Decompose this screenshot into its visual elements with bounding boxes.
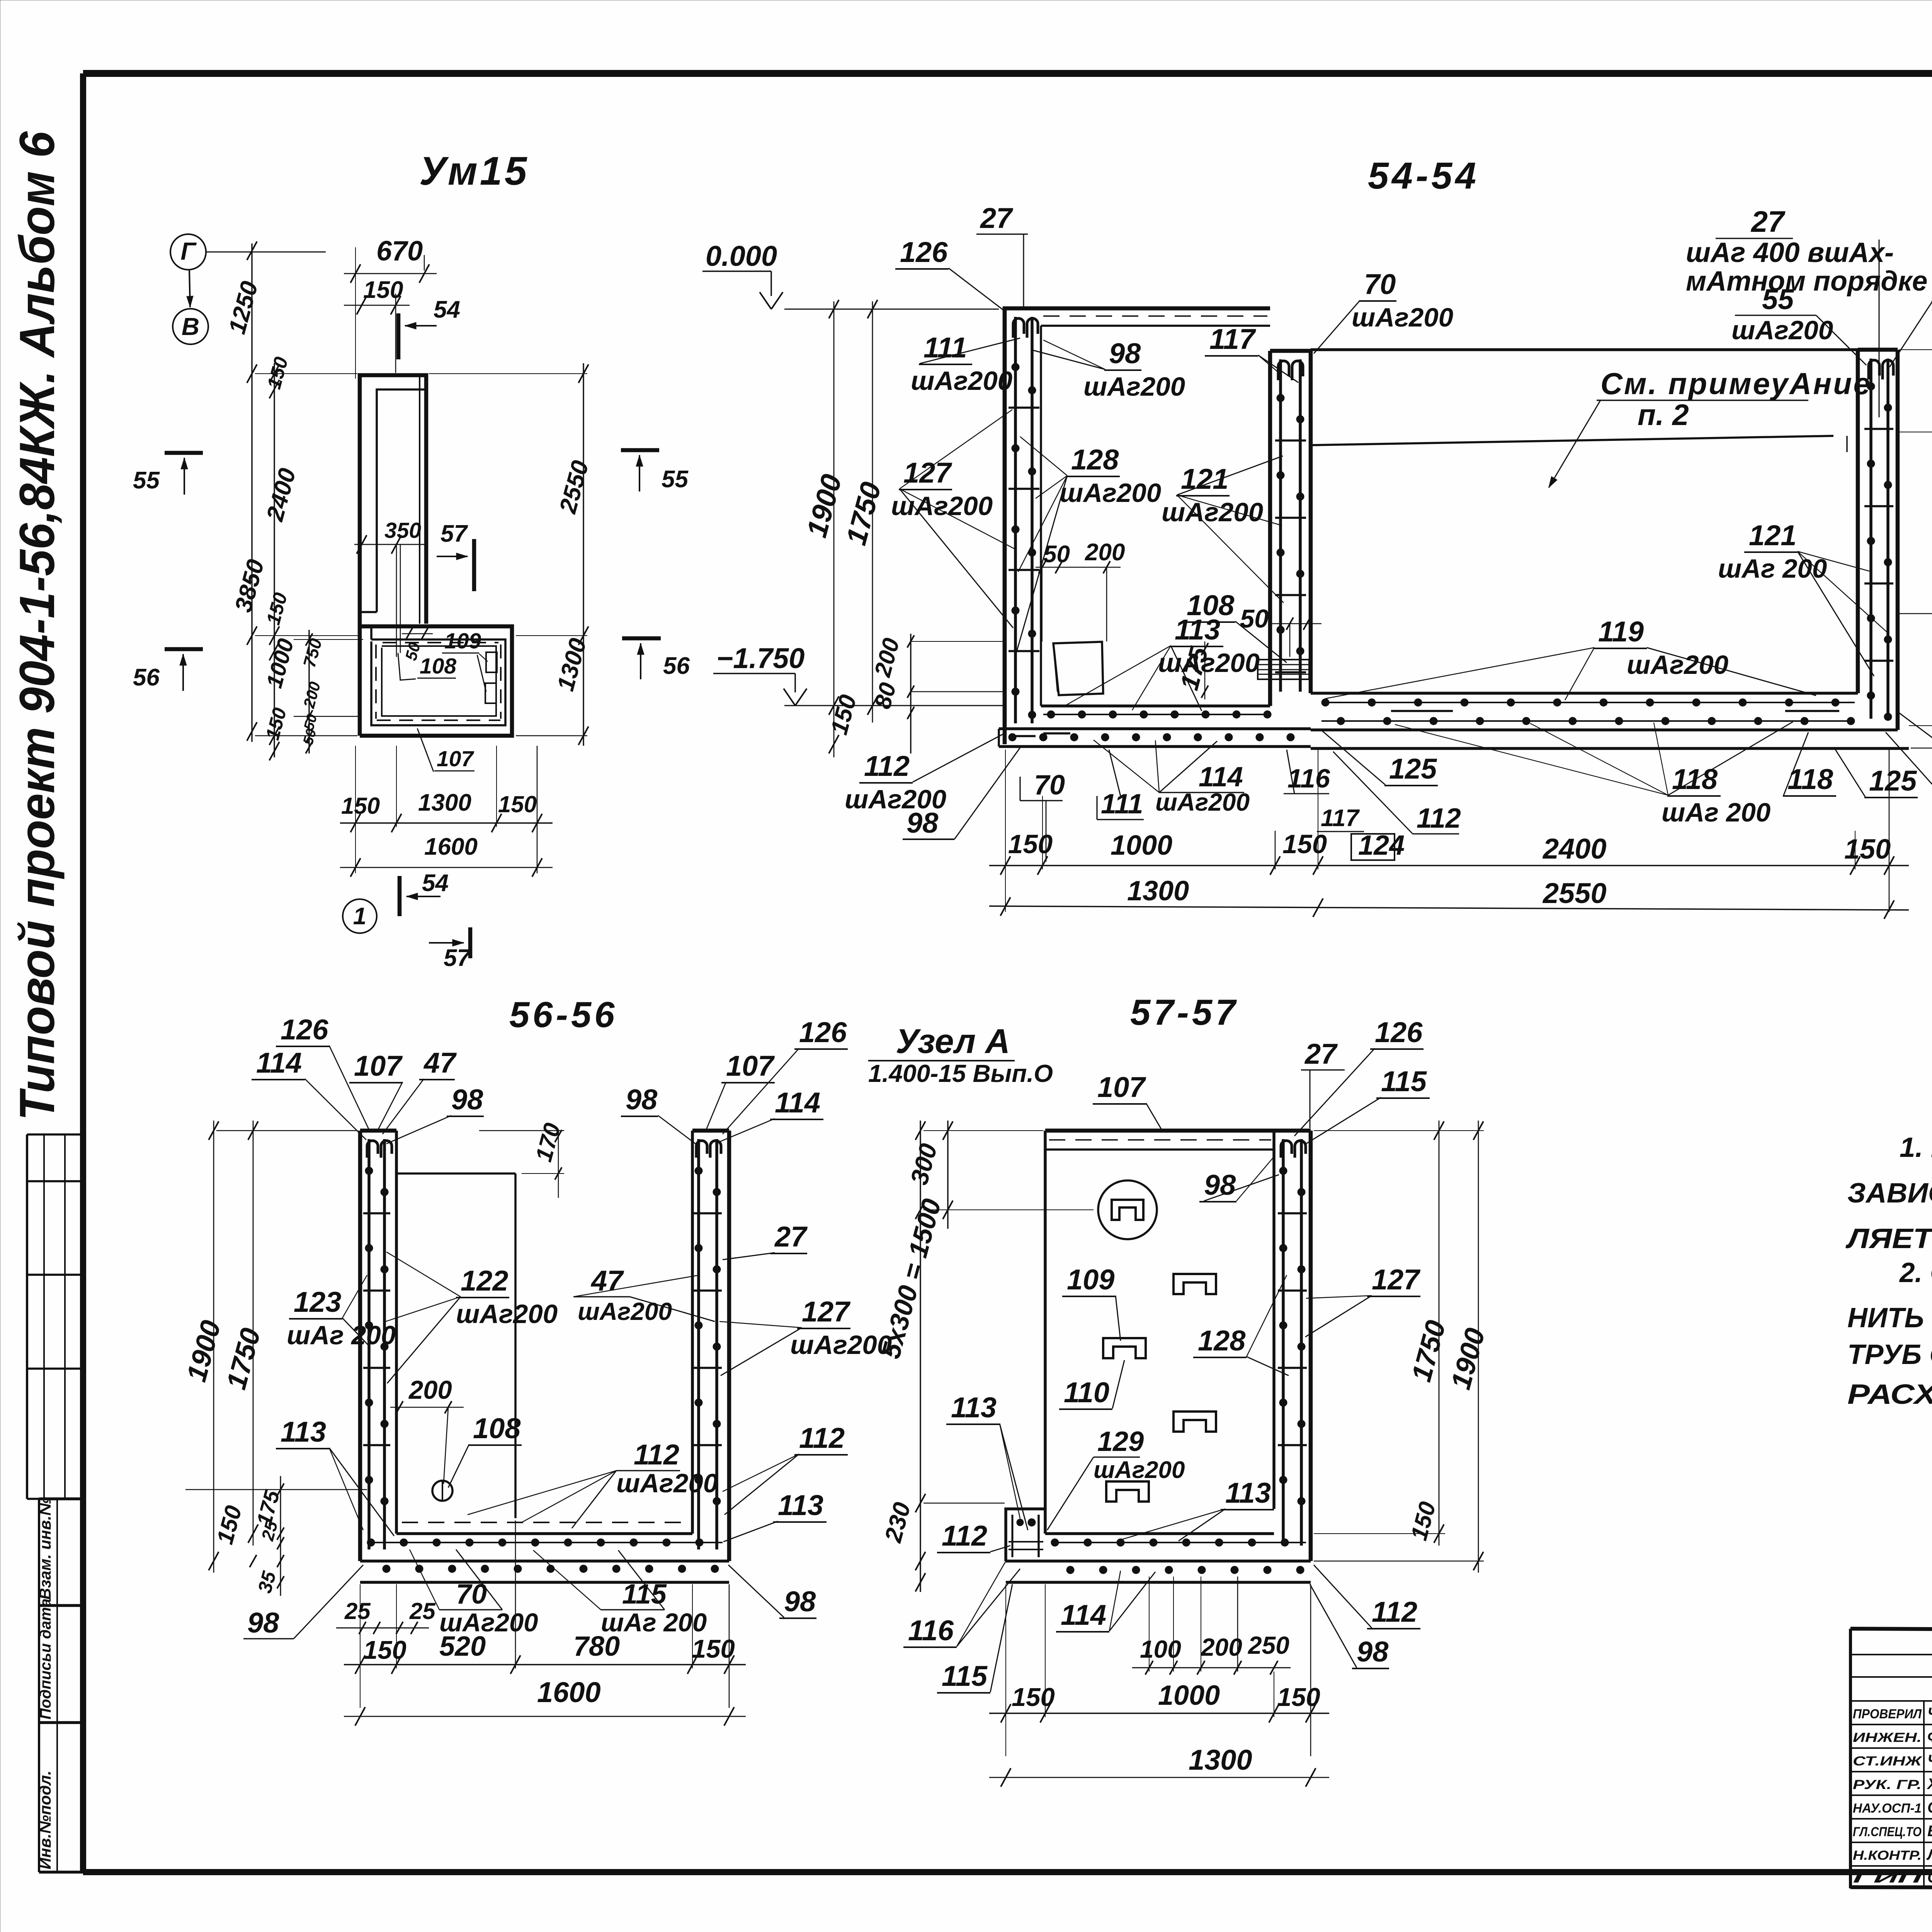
svg-text:25: 25 — [344, 1598, 371, 1624]
57-57 stirrup brackets scattered — [1173, 1274, 1216, 1294]
56-56 right wall outline — [692, 1131, 729, 1561]
svg-text:СААКЬЯНЦ: СААКЬЯНЦ — [1927, 1799, 1932, 1816]
svg-text:ЧЕРНЯВСКАЯ: ЧЕРНЯВСКАЯ — [1927, 1705, 1932, 1722]
svg-text:350: 350 — [384, 518, 421, 543]
57-57 right wall band — [1274, 1131, 1311, 1561]
svg-text:123: 123 — [294, 1286, 341, 1318]
svg-text:107: 107 — [726, 1050, 775, 1082]
svg-text:113: 113 — [778, 1489, 823, 1521]
54-54 right compartment long walls — [1311, 350, 1858, 460]
svg-text:57: 57 — [440, 520, 468, 547]
svg-text:1.400-15 Вып.О: 1.400-15 Вып.О — [868, 1060, 1053, 1087]
svg-text:55: 55 — [133, 467, 160, 494]
svg-text:98: 98 — [626, 1083, 658, 1116]
54-54 left wall concrete outline — [1005, 308, 1041, 744]
svg-text:200: 200 — [1201, 1633, 1242, 1661]
svg-text:56: 56 — [663, 653, 690, 679]
svg-text:шАг 200: шАг 200 — [1662, 798, 1770, 827]
svg-text:СТ.ИНЖ: СТ.ИНЖ — [1853, 1754, 1923, 1769]
svg-text:Узел А: Узел А — [896, 1022, 1010, 1060]
svg-text:1300: 1300 — [1189, 1744, 1252, 1776]
svg-text:112: 112 — [864, 750, 910, 782]
svg-text:54-54: 54-54 — [1368, 155, 1479, 197]
svg-text:114: 114 — [1061, 1599, 1106, 1631]
plan Ум15 pipe sleeve marks 109 — [486, 652, 497, 672]
54-54 middle wall rebar with dots — [1275, 359, 1306, 692]
svg-text:121: 121 — [1749, 519, 1796, 551]
svg-text:113: 113 — [1175, 614, 1220, 646]
svg-text:ГИП: ГИП — [1853, 1871, 1923, 1886]
svg-text:Инв.№подл.: Инв.№подл. — [36, 1770, 54, 1869]
svg-text:мАтном порядке: мАтном порядке — [1686, 266, 1927, 297]
svg-text:107: 107 — [1097, 1071, 1146, 1103]
svg-text:112: 112 — [634, 1439, 679, 1471]
svg-text:См. примеуАние: См. примеуАние — [1600, 366, 1872, 401]
svg-text:1000: 1000 — [1158, 1680, 1220, 1711]
57-57 right dims 1750/1900/150 — [1314, 1121, 1491, 1573]
svg-text:27: 27 — [1304, 1038, 1338, 1070]
svg-text:150: 150 — [363, 1636, 406, 1665]
svg-text:27: 27 — [980, 202, 1014, 234]
svg-text:55: 55 — [662, 466, 689, 493]
svg-text:109: 109 — [1067, 1264, 1114, 1296]
54-54 blockout opening in left compartment — [1053, 642, 1103, 695]
svg-text:150: 150 — [1844, 834, 1891, 865]
svg-text:НАУ.ОСП-1: НАУ.ОСП-1 — [1853, 1801, 1922, 1816]
svg-text:шАг200: шАг200 — [616, 1468, 718, 1498]
svg-text:117: 117 — [1321, 805, 1360, 832]
plan Ум15 box outline — [360, 626, 512, 736]
svg-text:шАг 400 вшАх-: шАг 400 вшАх- — [1686, 237, 1894, 268]
svg-text:126: 126 — [799, 1016, 847, 1048]
svg-text:150: 150 — [363, 277, 403, 303]
svg-text:1300: 1300 — [1127, 876, 1189, 906]
54-54 left compartment floor — [999, 706, 1311, 747]
svg-text:126: 126 — [1375, 1016, 1423, 1048]
signature roles and names — [1853, 1705, 1932, 1886]
Um15 left dim chain 1250/3850 — [224, 241, 269, 742]
svg-text:100: 100 — [1140, 1635, 1181, 1663]
54-54 top slab — [1041, 308, 1270, 326]
svg-text:шАг 200: шАг 200 — [287, 1320, 396, 1350]
54-54 right wall outline — [1858, 350, 1898, 730]
svg-text:54: 54 — [434, 296, 460, 323]
svg-text:25: 25 — [409, 1598, 436, 1624]
svg-text:114: 114 — [775, 1087, 820, 1119]
svg-text:98: 98 — [906, 807, 939, 839]
svg-text:ГЛ.СПЕЦ.ТО: ГЛ.СПЕЦ.ТО — [1853, 1825, 1922, 1839]
svg-text:27: 27 — [1750, 205, 1786, 238]
svg-text:128: 128 — [1071, 444, 1119, 476]
svg-text:1000: 1000 — [1111, 830, 1172, 861]
foot rebar marks 54-54 left corner — [1009, 735, 1036, 737]
svg-text:Ум15: Ум15 — [419, 149, 529, 194]
left margin stamp table lower with labels — [36, 1497, 83, 1872]
plan Ум15 dashed rebar lines in box — [376, 643, 501, 720]
svg-text:2400: 2400 — [1542, 833, 1607, 865]
svg-text:98: 98 — [1204, 1169, 1236, 1201]
svg-text:108: 108 — [473, 1412, 521, 1444]
Um15 inner dim chain 750/200/50 — [294, 630, 363, 753]
svg-text:Н.КОНТР.: Н.КОНТР. — [1853, 1848, 1922, 1863]
svg-text:150: 150 — [498, 791, 537, 817]
svg-text:150: 150 — [1282, 829, 1327, 859]
56-56 floor rebar dots — [367, 1539, 723, 1573]
54-54 right dim 800 — [1899, 336, 1932, 626]
title block outer — [1850, 1629, 1932, 1889]
svg-text:200: 200 — [1085, 539, 1125, 566]
svg-text:98: 98 — [451, 1083, 483, 1116]
54-54 left wall rebar with dots — [1009, 317, 1039, 723]
svg-text:111: 111 — [1101, 789, 1143, 820]
svg-text:112: 112 — [1372, 1596, 1417, 1628]
svg-text:125: 125 — [1869, 765, 1917, 797]
svg-text:113: 113 — [1225, 1477, 1271, 1509]
svg-text:47: 47 — [590, 1265, 624, 1297]
svg-text:шАг200: шАг200 — [790, 1330, 892, 1360]
svg-text:27: 27 — [774, 1221, 808, 1253]
Um15 left dim chain 150/2400/150/1000/150 — [255, 355, 359, 760]
svg-text:150: 150 — [692, 1634, 735, 1663]
svg-text:ИНЖЕН.: ИНЖЕН. — [1853, 1730, 1922, 1745]
54-54 bottom dim chain 150/1000/150/2400/150 — [989, 750, 1909, 912]
svg-text:ХАНИН: ХАНИН — [1927, 1776, 1932, 1793]
56-56 hole 108 circle — [432, 1481, 452, 1501]
56-56 left wall outline — [360, 1131, 396, 1561]
54-54 right dim 1650/80 — [1899, 336, 1932, 757]
svg-text:127: 127 — [903, 457, 952, 489]
svg-text:ОСТАШЕ СКНИ: ОСТАШЕ СКНИ — [1927, 1869, 1932, 1886]
svg-text:ПРОВЕРИЛ: ПРОВЕРИЛ — [1853, 1707, 1922, 1721]
svg-text:НИТЬ БЕЗ НАРУШЕНИЯ АРМАТУРЫ.: НИТЬ БЕЗ НАРУШЕНИЯ АРМАТУРЫ. ПОСЛЕ ПРОКЛ… — [1847, 1303, 1932, 1333]
Um15 bottom dim 150/1300/150 — [340, 746, 553, 873]
svg-text:1600: 1600 — [424, 833, 478, 860]
svg-text:шАг200: шАг200 — [1094, 1457, 1185, 1483]
svg-text:56-56: 56-56 — [509, 994, 617, 1035]
svg-text:108: 108 — [420, 654, 456, 679]
57-57 узел А detail circle with bracket — [1098, 1180, 1157, 1239]
left margin stamp table upper — [27, 1134, 83, 1499]
svg-text:98: 98 — [784, 1585, 816, 1617]
54-54 dim 80 200 small — [869, 634, 1005, 753]
svg-text:шАг200: шАг200 — [578, 1298, 672, 1325]
svg-text:БОЯРУЕНКО: БОЯРУЕНКО — [1927, 1823, 1932, 1840]
54-54 bottom dim 1300/2550 — [989, 876, 1909, 919]
svg-text:шАг200: шАг200 — [911, 366, 1012, 396]
svg-text:107: 107 — [437, 747, 474, 771]
svg-text:126: 126 — [900, 236, 948, 268]
56-56 left wall rebar — [363, 1139, 392, 1549]
svg-text:109: 109 — [444, 629, 481, 653]
svg-text:150: 150 — [1012, 1683, 1055, 1712]
svg-text:РУК. ГР.: РУК. ГР. — [1853, 1777, 1922, 1792]
svg-text:шАг200: шАг200 — [1083, 372, 1185, 401]
svg-text:115: 115 — [1381, 1065, 1427, 1097]
svg-text:шАг200: шАг200 — [439, 1608, 538, 1637]
svg-text:0.000: 0.000 — [706, 240, 777, 272]
svg-text:ТРУБ ОТВЕРСТИЯ ЗАДЕЛАТЬ БЕТО: ТРУБ ОТВЕРСТИЯ ЗАДЕЛАТЬ БЕТОНОМ МАРКИ 15… — [1847, 1339, 1932, 1370]
svg-text:шАг200: шАг200 — [891, 491, 993, 521]
svg-text:шАг200: шАг200 — [1155, 788, 1250, 816]
svg-text:В: В — [182, 313, 199, 340]
svg-text:54: 54 — [422, 870, 449, 896]
svg-text:70: 70 — [1364, 268, 1396, 300]
57-57 panel outline — [1045, 1131, 1274, 1534]
svg-text:ЛУЦЕНКО: ЛУЦЕНКО — [1926, 1846, 1932, 1863]
56-56 bottom dim 150/520/780/150 — [344, 1520, 746, 1708]
svg-text:57: 57 — [444, 945, 471, 971]
svg-text:126: 126 — [281, 1014, 328, 1046]
57-57 floor — [1006, 1534, 1311, 1582]
svg-text:шАг 200: шАг 200 — [601, 1608, 707, 1637]
title block signature rows — [1850, 1629, 1932, 1889]
svg-text:ЧЕРНЯВСКАЯ: ЧЕРНЯВСКАЯ — [1927, 1752, 1932, 1769]
svg-text:Подписьи дата: Подписьи дата — [37, 1599, 54, 1719]
svg-text:127: 127 — [1372, 1264, 1421, 1296]
svg-text:98: 98 — [1357, 1636, 1389, 1668]
svg-text:98: 98 — [247, 1607, 279, 1639]
svg-text:ЛЯЕТСЯ ПРИ ПРИВЯЗКЕ ТИПОВОГ: ЛЯЕТСЯ ПРИ ПРИВЯЗКЕ ТИПОВОГО ПРОЕКТА. — [1845, 1223, 1932, 1254]
svg-text:56: 56 — [133, 664, 160, 691]
svg-text:ЗАВИСИТ ОТ РАЙОНА СТРОИТЕЛЬ: ЗАВИСИТ ОТ РАЙОНА СТРОИТЕЛЬСТВА И ОПРЕДЕ… — [1847, 1177, 1932, 1209]
svg-text:−1.750: −1.750 — [716, 642, 804, 674]
svg-text:250: 250 — [1248, 1631, 1289, 1659]
svg-text:98: 98 — [1109, 337, 1141, 369]
54-54 left dim 1900/1750 — [800, 300, 887, 757]
54-54 right wall rebar — [1864, 359, 1893, 721]
svg-text:125: 125 — [1389, 753, 1437, 785]
54-54 right compartment floor — [1311, 693, 1909, 748]
svg-text:шАг200: шАг200 — [1060, 478, 1161, 508]
svg-text:117: 117 — [1209, 323, 1257, 355]
svg-text:Взам. инв.№: Взам. инв.№ — [36, 1497, 54, 1600]
57-57 bottom dim 150/1000/150 — [989, 1584, 1329, 1756]
57-57 right wall rebar — [1278, 1139, 1307, 1546]
54-54 middle wall outline — [1270, 351, 1311, 706]
svg-text:ФЕДОТОВА: ФЕДОТОВА — [1927, 1728, 1932, 1745]
svg-text:119: 119 — [1598, 616, 1644, 648]
svg-text:Типовой проект 904-1-56,84КЖ.: Типовой проект 904-1-56,84КЖ. Альбом 6 — [10, 131, 65, 1121]
56-56 floor — [360, 1522, 729, 1582]
svg-text:127: 127 — [802, 1296, 851, 1328]
svg-text:129: 129 — [1097, 1426, 1144, 1457]
57-57 foot block bottom left — [1006, 1509, 1045, 1561]
56-56 inner elevation edge line 170 offset — [514, 1173, 517, 1518]
svg-text:70: 70 — [1034, 770, 1065, 801]
svg-text:1300: 1300 — [418, 789, 471, 816]
svg-text:111: 111 — [923, 332, 967, 364]
svg-text:116: 116 — [908, 1614, 954, 1646]
57-57 floor rebar dots — [1051, 1539, 1306, 1574]
54-54 pipe sleeve through middle wall — [1258, 660, 1309, 679]
svg-text:1: 1 — [353, 903, 366, 930]
svg-text:112: 112 — [799, 1422, 845, 1454]
54-54 right floor rebar dots — [1321, 699, 1855, 725]
svg-text:114: 114 — [256, 1047, 302, 1079]
svg-text:шАг200: шАг200 — [456, 1299, 558, 1329]
svg-text:50: 50 — [1240, 604, 1269, 633]
svg-text:128: 128 — [1198, 1325, 1246, 1357]
svg-text:115: 115 — [942, 1660, 988, 1692]
svg-text:114: 114 — [1199, 762, 1243, 793]
svg-text:57-57: 57-57 — [1130, 992, 1238, 1032]
axis circle Г with arrow to В — [170, 234, 206, 270]
svg-text:2550: 2550 — [1542, 877, 1607, 909]
svg-text:112: 112 — [1417, 803, 1461, 834]
svg-text:1600: 1600 — [537, 1676, 601, 1708]
svg-text:110: 110 — [1064, 1376, 1109, 1408]
svg-text:РАСХОД БЕТОНА РАВЕН 0,29 м: РАСХОД БЕТОНА РАВЕН 0,29 м³ — [1847, 1379, 1932, 1410]
svg-text:113: 113 — [951, 1391, 997, 1423]
plan Ум15 wall leg outline — [360, 375, 426, 736]
svg-text:670: 670 — [376, 236, 423, 267]
svg-text:47: 47 — [423, 1047, 457, 1079]
svg-text:п. 2: п. 2 — [1638, 398, 1689, 432]
Um15 right dim 2550/1300 — [429, 363, 594, 746]
notes paragraph — [1845, 1132, 1932, 1410]
axis circle 1 — [343, 899, 377, 933]
svg-text:шАг200: шАг200 — [1627, 650, 1728, 680]
svg-text:200: 200 — [408, 1376, 452, 1405]
svg-text:113: 113 — [281, 1416, 326, 1448]
svg-text:Г: Г — [180, 237, 197, 265]
svg-text:150: 150 — [1277, 1683, 1320, 1712]
54-54 left floor rebar dots — [1009, 711, 1294, 741]
svg-text:шАг 200: шАг 200 — [1718, 554, 1827, 583]
svg-text:шАг200: шАг200 — [1731, 315, 1833, 345]
svg-text:107: 107 — [354, 1050, 403, 1082]
56-56 left small dims 150/175/25/35 — [185, 1476, 367, 1596]
svg-text:1. ПРИВЯЗКА ОТВЕРСТИЯ ДЛЯ П: 1. ПРИВЯЗКА ОТВЕРСТИЯ ДЛЯ ПРОПУСКА ТРУБ — [1900, 1132, 1932, 1163]
57-57 left dims 300 / 5x300=1500 / 230 — [876, 1121, 1094, 1592]
svg-text:122: 122 — [461, 1265, 508, 1297]
svg-text:2. ОТВЕРСТИЯ В МОНОЛИТНОМ УУ: 2. ОТВЕРСТИЯ В МОНОЛИТНОМ УУАСТКЕ ВЫПОЛ- — [1899, 1257, 1932, 1288]
svg-text:112: 112 — [942, 1520, 987, 1552]
56-56 left dims 1900/1750 — [181, 1121, 357, 1573]
56-56 right wall rebar — [694, 1139, 722, 1549]
svg-text:шАг200: шАг200 — [1352, 303, 1453, 332]
svg-text:шАг200: шАг200 — [1162, 497, 1263, 527]
